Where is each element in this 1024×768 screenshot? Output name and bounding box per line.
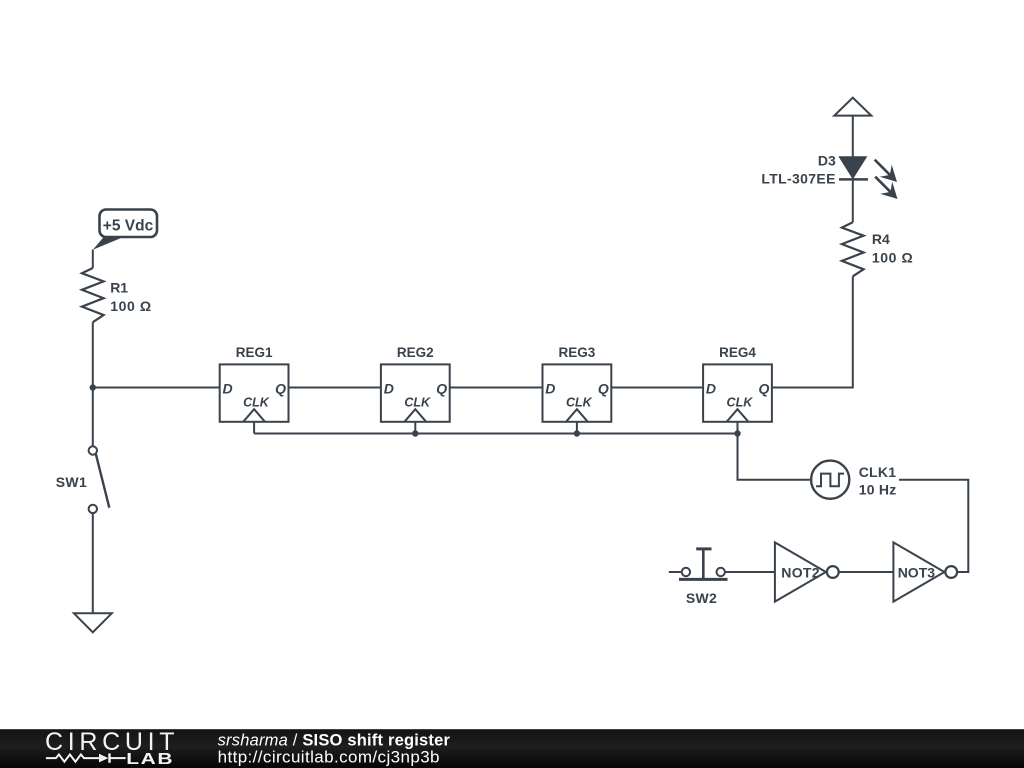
- REG4 body: [703, 364, 772, 421]
- CLK1 circle: [811, 461, 849, 499]
- svg-text:Q: Q: [275, 381, 286, 397]
- flip-flop REG4: [703, 345, 772, 422]
- svg-text:SW1: SW1: [56, 474, 87, 490]
- D3 anode triangle: [840, 157, 866, 177]
- clock edge chevron: [243, 409, 265, 422]
- svg-text:100 Ω: 100 Ω: [872, 249, 913, 265]
- footer logo resistor-diode glyph: [46, 753, 126, 762]
- D3 cathode bar: [839, 178, 868, 181]
- wire +5V to R1: [92, 250, 94, 269]
- flip-flop REG2: [381, 345, 450, 422]
- svg-text:Q: Q: [598, 381, 609, 397]
- clock edge chevron: [566, 409, 588, 422]
- svg-text:CLK: CLK: [727, 396, 754, 410]
- SW1 blade: [96, 454, 110, 508]
- flip-flop REG3: [543, 345, 612, 422]
- power flag +5 Vdc: [93, 210, 157, 250]
- svg-text:D: D: [384, 381, 394, 397]
- wire SW2 to NOT2: [725, 571, 775, 573]
- wire SW1 to ground: [92, 513, 94, 613]
- svg-text:100 Ω: 100 Ω: [110, 298, 151, 314]
- svg-text:R1: R1: [110, 280, 128, 296]
- wire REG2 CLK stub: [414, 422, 416, 434]
- inverter NOT3: [893, 542, 957, 601]
- REG1 body: [220, 364, 289, 421]
- switch SW2: [669, 549, 728, 606]
- footer bar: [0, 729, 1024, 768]
- wire node A to REG1 D: [93, 387, 220, 389]
- SW2 contact bar: [679, 578, 728, 581]
- svg-text:D3: D3: [818, 152, 836, 168]
- svg-text:http://circuitlab.com/cj3np3b: http://circuitlab.com/cj3np3b: [218, 748, 440, 767]
- svg-text:+5 Vdc: +5 Vdc: [103, 218, 154, 235]
- REG3 body: [543, 364, 612, 421]
- D3 light arrow 2: [875, 177, 890, 192]
- NOT2 triangle body: [775, 542, 826, 601]
- svg-text:NOT2: NOT2: [781, 565, 820, 581]
- wire VCC to LED: [852, 116, 854, 158]
- resistor R4: [842, 222, 913, 276]
- wire REG4 CLK stub: [737, 422, 739, 434]
- svg-text:NOT3: NOT3: [898, 565, 936, 581]
- svg-text:CLK: CLK: [566, 396, 593, 410]
- SW2 right terminal: [717, 568, 725, 576]
- SW2 left terminal: [682, 568, 690, 576]
- wire REG2 Q to REG3 D: [450, 387, 543, 389]
- wire REG1 Q to REG2 D: [289, 387, 381, 389]
- svg-text:SW2: SW2: [686, 590, 717, 606]
- NOT3 inversion bubble: [945, 566, 957, 578]
- svg-text:REG4: REG4: [719, 345, 756, 360]
- D3 light arrow 1: [875, 160, 890, 175]
- svg-text:LAB: LAB: [126, 749, 174, 767]
- flip-flop REG1: [220, 345, 289, 422]
- svg-text:CLK1: CLK1: [859, 464, 897, 480]
- junction clock bus at REG2: [412, 430, 418, 436]
- clock edge chevron: [727, 409, 749, 422]
- svg-text:REG3: REG3: [559, 345, 596, 360]
- svg-text:10 Hz: 10 Hz: [859, 482, 897, 498]
- power VCC triangle: [834, 98, 871, 116]
- NOT2 inversion bubble: [827, 566, 839, 578]
- svg-text:D: D: [706, 381, 716, 397]
- wire LED to R4: [852, 179, 854, 222]
- SW1 bottom terminal: [89, 505, 97, 513]
- wire REG1 CLK stub: [253, 422, 255, 434]
- svg-text:CLK: CLK: [404, 396, 431, 410]
- ground: [74, 613, 112, 632]
- wire CLK1 to NOT3 output: [899, 480, 968, 572]
- wire R1 to SW1: [92, 322, 94, 446]
- +5 Vdc flag box: [100, 210, 158, 238]
- svg-text:LTL-307EE: LTL-307EE: [761, 171, 835, 187]
- svg-text:REG1: REG1: [236, 345, 273, 360]
- R4 zigzag body: [842, 222, 864, 276]
- svg-text:Q: Q: [759, 381, 770, 397]
- clock source CLK1: [811, 461, 896, 499]
- switch SW1: [56, 446, 110, 513]
- junction clock bus at REG4: [734, 430, 740, 436]
- SW2 left lead stub: [669, 571, 682, 573]
- NOT3 triangle body: [893, 542, 944, 601]
- +5 Vdc flag tail: [93, 237, 124, 250]
- svg-text:R4: R4: [872, 231, 890, 247]
- SW2 actuator cap: [696, 547, 711, 550]
- svg-text:D: D: [223, 381, 233, 397]
- resistor R1: [82, 268, 152, 322]
- LED D3: [761, 152, 897, 199]
- SW2 actuator stem: [702, 549, 705, 580]
- svg-text:CLK: CLK: [243, 396, 270, 410]
- wire REG3 CLK stub: [576, 422, 578, 434]
- junction clock bus at REG3: [574, 430, 580, 436]
- SW1 top terminal: [89, 446, 97, 454]
- R1 zigzag body: [82, 268, 104, 322]
- wire REG3 Q to REG4 D: [611, 387, 703, 389]
- REG2 body: [381, 364, 450, 421]
- CLK1 square-wave glyph: [816, 474, 844, 487]
- svg-text:Q: Q: [436, 381, 447, 397]
- svg-text:REG2: REG2: [397, 345, 434, 360]
- node A junction dot: [90, 384, 96, 390]
- wire NOT2 to NOT3: [839, 571, 893, 573]
- inverter NOT2: [775, 542, 839, 601]
- wire clock bus: [254, 433, 737, 435]
- svg-text:D: D: [545, 381, 555, 397]
- wire clock bus to CLK1: [738, 434, 811, 480]
- wire REG4 Q to R4: [772, 276, 853, 387]
- clock edge chevron: [404, 409, 426, 422]
